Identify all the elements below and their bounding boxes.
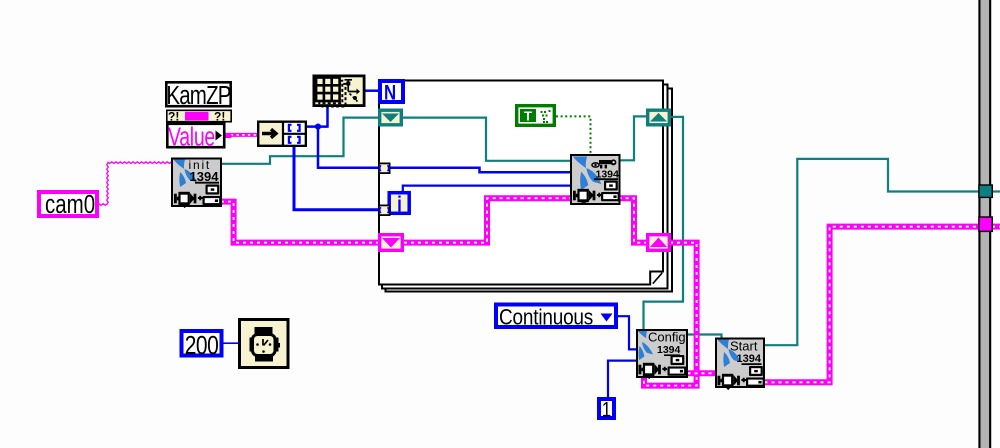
svg-text:Start: Start xyxy=(730,338,758,353)
svg-text:i: i xyxy=(397,192,402,217)
svg-text:Continuous: Continuous xyxy=(499,305,593,330)
svg-text:1394: 1394 xyxy=(737,353,762,365)
svg-text:200: 200 xyxy=(185,331,219,359)
svg-text:T: T xyxy=(524,109,532,124)
svg-text:?!: ?! xyxy=(214,110,225,124)
svg-text:KamZP: KamZP xyxy=(166,81,231,110)
svg-text:1394: 1394 xyxy=(190,169,220,184)
svg-text:Config: Config xyxy=(648,330,686,345)
svg-text:N: N xyxy=(384,82,396,105)
svg-text:1: 1 xyxy=(602,399,611,422)
svg-text:Value: Value xyxy=(168,122,215,151)
svg-text:cam0: cam0 xyxy=(45,190,95,219)
